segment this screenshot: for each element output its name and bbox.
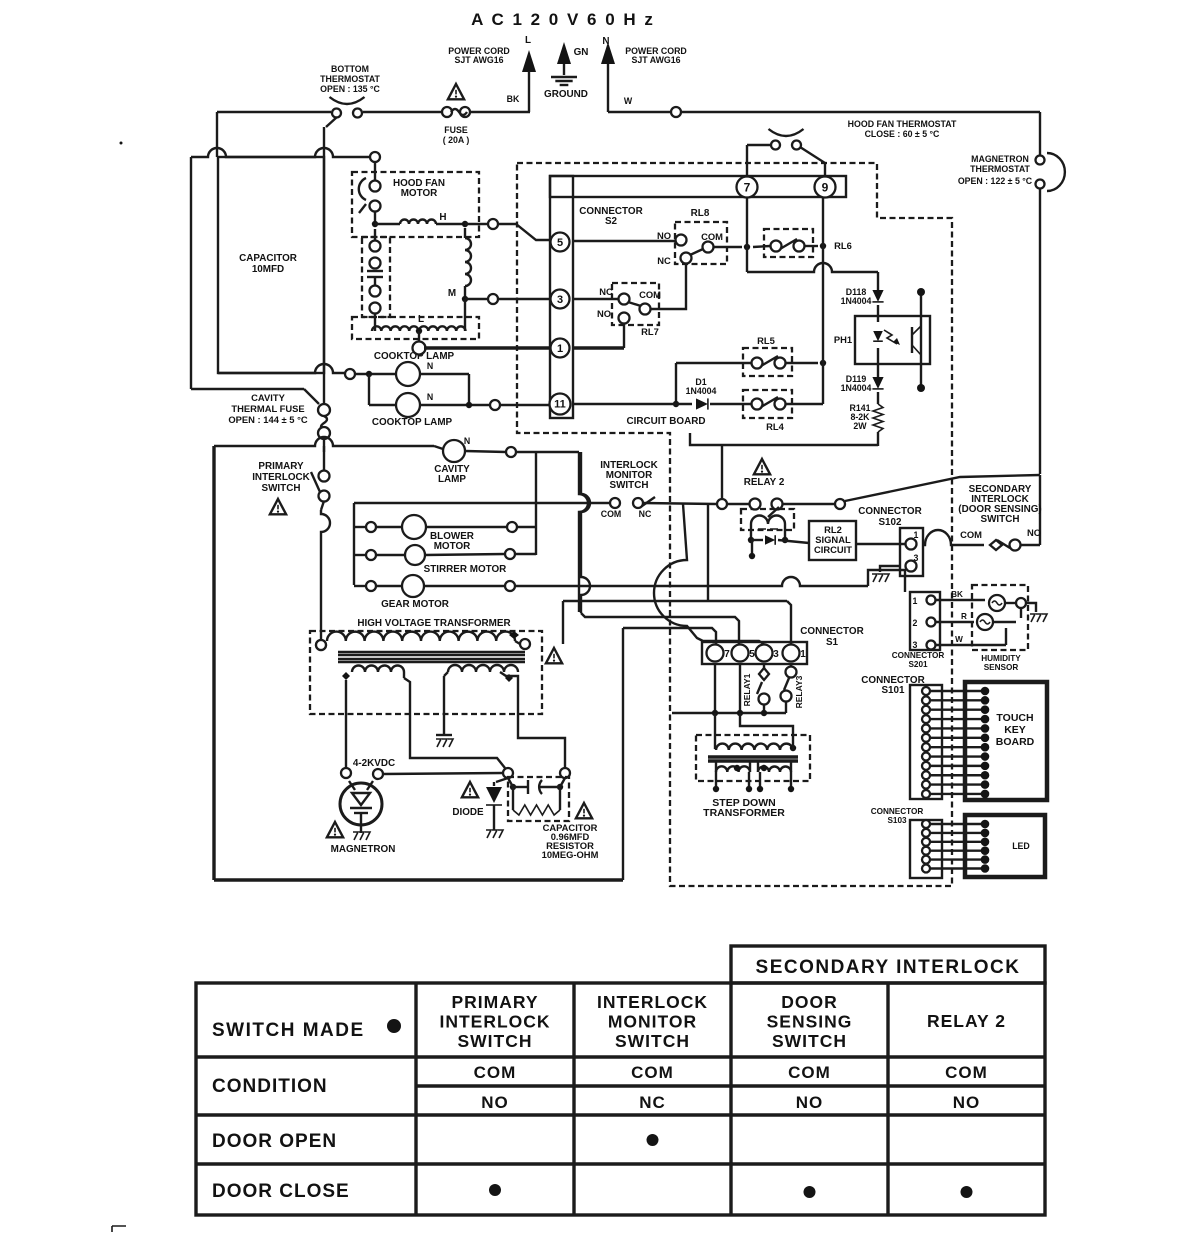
svg-text:RELAY 2: RELAY 2	[927, 1011, 1006, 1031]
svg-text:1: 1	[913, 596, 918, 606]
svg-text:NC: NC	[657, 255, 671, 266]
svg-text:COOKTOP LAMP: COOKTOP LAMP	[372, 417, 453, 428]
svg-text:10MFD: 10MFD	[252, 264, 284, 275]
svg-text:STIRRER MOTOR: STIRRER MOTOR	[424, 564, 507, 575]
svg-text:SWITCH: SWITCH	[262, 483, 301, 494]
svg-text:N: N	[427, 392, 433, 402]
svg-text:7: 7	[744, 180, 751, 194]
svg-text:S201: S201	[908, 660, 928, 669]
svg-text:OPEN : 144 ± 5 °C: OPEN : 144 ± 5 °C	[228, 414, 307, 425]
svg-text:7: 7	[724, 649, 730, 660]
svg-text:RL8: RL8	[691, 208, 710, 219]
svg-text:1N4004: 1N4004	[841, 296, 872, 306]
svg-text:2: 2	[913, 618, 918, 628]
svg-text:SENSING: SENSING	[767, 1012, 853, 1032]
svg-text:1: 1	[557, 343, 563, 355]
svg-text:RL4: RL4	[766, 421, 784, 432]
svg-text:PRIMARY: PRIMARY	[258, 461, 304, 472]
svg-text:DOOR: DOOR	[781, 992, 838, 1012]
svg-text:BK: BK	[507, 94, 520, 104]
svg-text:NO: NO	[953, 1093, 981, 1112]
svg-text:5: 5	[749, 649, 755, 660]
svg-text:COM: COM	[945, 1063, 988, 1082]
svg-text:5: 5	[557, 237, 563, 249]
svg-text:M: M	[448, 288, 456, 299]
svg-text:( 20A ): ( 20A )	[443, 135, 470, 145]
svg-text:TOUCH: TOUCH	[996, 712, 1033, 724]
svg-text:1: 1	[800, 649, 806, 660]
svg-text:THERMOSTAT: THERMOSTAT	[970, 164, 1030, 174]
svg-text:RELAY 2: RELAY 2	[744, 477, 785, 488]
svg-text:W: W	[955, 635, 963, 644]
svg-text:2W: 2W	[853, 421, 867, 431]
svg-text:RELAY3: RELAY3	[794, 675, 804, 708]
svg-text:SWITCH: SWITCH	[457, 1031, 532, 1051]
svg-text:S101: S101	[881, 685, 905, 696]
svg-text:S102: S102	[878, 517, 902, 528]
svg-text:THERMOSTAT: THERMOSTAT	[320, 74, 380, 84]
svg-text:COM: COM	[474, 1063, 517, 1082]
svg-text:L: L	[525, 35, 531, 46]
svg-text:N: N	[464, 436, 470, 446]
svg-text:CONNECTOR: CONNECTOR	[858, 506, 921, 517]
svg-text:CONNECTOR: CONNECTOR	[892, 651, 945, 660]
svg-text:MOTOR: MOTOR	[434, 541, 471, 552]
svg-text:OPEN : 122 ± 5 °C: OPEN : 122 ± 5 °C	[958, 176, 1033, 186]
svg-text:BK: BK	[951, 590, 963, 599]
svg-text:RL7: RL7	[641, 326, 659, 337]
svg-text:10MEG-OHM: 10MEG-OHM	[542, 849, 599, 860]
svg-text:CIRCUIT: CIRCUIT	[814, 544, 852, 555]
svg-text:SJT AWG16: SJT AWG16	[631, 55, 680, 65]
svg-text:3: 3	[557, 294, 563, 306]
svg-text:GEAR MOTOR: GEAR MOTOR	[381, 599, 449, 610]
svg-text:CONNECTOR: CONNECTOR	[871, 807, 924, 816]
svg-text:SWITCH MADE: SWITCH MADE	[212, 1020, 365, 1041]
svg-text:LAMP: LAMP	[438, 474, 466, 485]
svg-text:COM: COM	[960, 529, 982, 540]
svg-text:L: L	[418, 314, 424, 325]
svg-text:MONITOR: MONITOR	[608, 1012, 697, 1032]
svg-text:KEY: KEY	[1004, 724, 1026, 736]
svg-text:INTERLOCK: INTERLOCK	[252, 472, 310, 483]
svg-text:NC: NC	[639, 1093, 666, 1112]
svg-text:SWITCH: SWITCH	[610, 480, 649, 491]
svg-text:DOOR CLOSE: DOOR CLOSE	[212, 1181, 350, 1202]
svg-text:CAPACITOR: CAPACITOR	[239, 253, 297, 264]
svg-text:W: W	[624, 96, 633, 106]
svg-text:HUMIDITY: HUMIDITY	[981, 654, 1021, 663]
svg-text:MAGNETRON: MAGNETRON	[331, 844, 396, 855]
svg-text:TRANSFORMER: TRANSFORMER	[703, 807, 785, 819]
svg-text:DIODE: DIODE	[452, 807, 484, 818]
svg-text:COM: COM	[639, 289, 661, 300]
svg-text:CIRCUIT BOARD: CIRCUIT BOARD	[627, 416, 706, 427]
svg-text:BOTTOM: BOTTOM	[331, 64, 369, 74]
svg-text:1N4004: 1N4004	[841, 383, 872, 393]
svg-text:4-2KVDC: 4-2KVDC	[353, 758, 395, 769]
svg-text:3: 3	[914, 553, 919, 563]
svg-text:DOOR OPEN: DOOR OPEN	[212, 1131, 337, 1152]
svg-text:RELAY1: RELAY1	[742, 673, 752, 706]
svg-text:LED: LED	[1012, 841, 1030, 851]
svg-text:1: 1	[914, 530, 919, 540]
svg-text:BOARD: BOARD	[996, 736, 1035, 748]
svg-text:CONNECTOR: CONNECTOR	[800, 626, 863, 637]
svg-text:3: 3	[913, 640, 918, 650]
svg-text:RL6: RL6	[834, 240, 852, 251]
svg-text:FUSE: FUSE	[444, 125, 468, 135]
svg-text:3: 3	[773, 649, 779, 660]
svg-text:GROUND: GROUND	[544, 89, 588, 100]
svg-text:COM: COM	[601, 509, 622, 519]
svg-text:HOOD FAN THERMOSTAT: HOOD FAN THERMOSTAT	[848, 119, 957, 129]
svg-text:SJT AWG16: SJT AWG16	[454, 55, 503, 65]
svg-text:COM: COM	[631, 1063, 674, 1082]
svg-text:CONDITION: CONDITION	[212, 1076, 328, 1097]
svg-text:CAVITY: CAVITY	[251, 392, 285, 403]
svg-text:NO: NO	[597, 308, 611, 319]
svg-text:NO: NO	[657, 230, 671, 241]
svg-text:INTERLOCK: INTERLOCK	[439, 1012, 550, 1032]
svg-text:S1: S1	[826, 637, 839, 648]
svg-text:SWITCH: SWITCH	[772, 1031, 847, 1051]
svg-text:S103: S103	[887, 816, 907, 825]
svg-text:COM: COM	[788, 1063, 831, 1082]
svg-text:SWITCH: SWITCH	[981, 514, 1020, 525]
svg-text:INTERLOCK: INTERLOCK	[597, 992, 708, 1012]
svg-text:R: R	[961, 612, 967, 621]
svg-text:N: N	[427, 361, 433, 371]
svg-text:PRIMARY: PRIMARY	[451, 992, 538, 1012]
svg-text:COM: COM	[701, 231, 723, 242]
svg-text:S2: S2	[605, 216, 618, 227]
svg-text:NO: NO	[796, 1093, 824, 1112]
svg-text:MAGNETRON: MAGNETRON	[971, 154, 1029, 164]
svg-text:NO: NO	[481, 1093, 509, 1112]
svg-text:HIGH VOLTAGE TRANSFORMER: HIGH VOLTAGE TRANSFORMER	[357, 618, 510, 629]
svg-text:GN: GN	[574, 47, 589, 58]
svg-text:NO: NO	[1027, 527, 1041, 538]
svg-text:THERMAL FUSE: THERMAL FUSE	[231, 403, 304, 414]
svg-text:SENSOR: SENSOR	[984, 663, 1019, 672]
svg-text:OPEN : 135 °C: OPEN : 135 °C	[320, 84, 380, 94]
svg-text:9: 9	[822, 180, 829, 194]
svg-text:RL5: RL5	[757, 335, 775, 346]
svg-text:NC: NC	[639, 509, 652, 519]
svg-text:11: 11	[554, 399, 566, 411]
svg-text:CLOSE : 60 ± 5 °C: CLOSE : 60 ± 5 °C	[865, 129, 940, 139]
svg-text:MOTOR: MOTOR	[401, 188, 438, 199]
svg-text:1N4004: 1N4004	[686, 386, 717, 396]
svg-text:H: H	[439, 212, 446, 223]
svg-text:SECONDARY INTERLOCK: SECONDARY INTERLOCK	[756, 957, 1021, 978]
svg-text:PH1: PH1	[834, 334, 852, 345]
svg-text:NC: NC	[599, 286, 613, 297]
svg-text:SWITCH: SWITCH	[615, 1031, 690, 1051]
svg-text:A C 1 2 0 V 6 0 H z: A C 1 2 0 V 6 0 H z	[471, 10, 655, 29]
